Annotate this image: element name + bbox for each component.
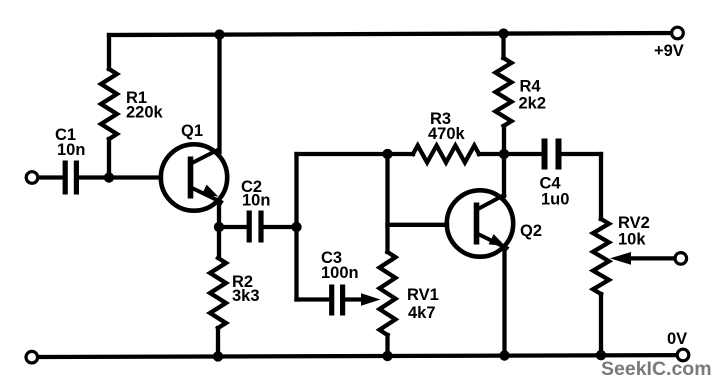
svg-text:220k: 220k — [126, 104, 164, 122]
svg-text:10n: 10n — [242, 192, 270, 210]
svg-text:RV1: RV1 — [407, 286, 439, 304]
svg-text:100n: 100n — [321, 264, 359, 282]
svg-text:4k7: 4k7 — [408, 304, 436, 322]
svg-text:Q2: Q2 — [520, 222, 542, 240]
svg-text:1u0: 1u0 — [541, 191, 569, 209]
svg-text:0V: 0V — [667, 330, 687, 348]
svg-text:3k3: 3k3 — [232, 287, 260, 305]
svg-text:+9V: +9V — [654, 42, 684, 60]
svg-text:Q1: Q1 — [181, 122, 203, 140]
svg-text:RV2: RV2 — [618, 214, 650, 232]
svg-text:10n: 10n — [57, 141, 85, 159]
svg-text:10k: 10k — [618, 231, 646, 249]
svg-text:SeekIC.com: SeekIC.com — [601, 358, 712, 380]
svg-text:470k: 470k — [428, 125, 466, 143]
svg-text:R4: R4 — [520, 78, 542, 96]
svg-text:2k2: 2k2 — [519, 95, 547, 113]
